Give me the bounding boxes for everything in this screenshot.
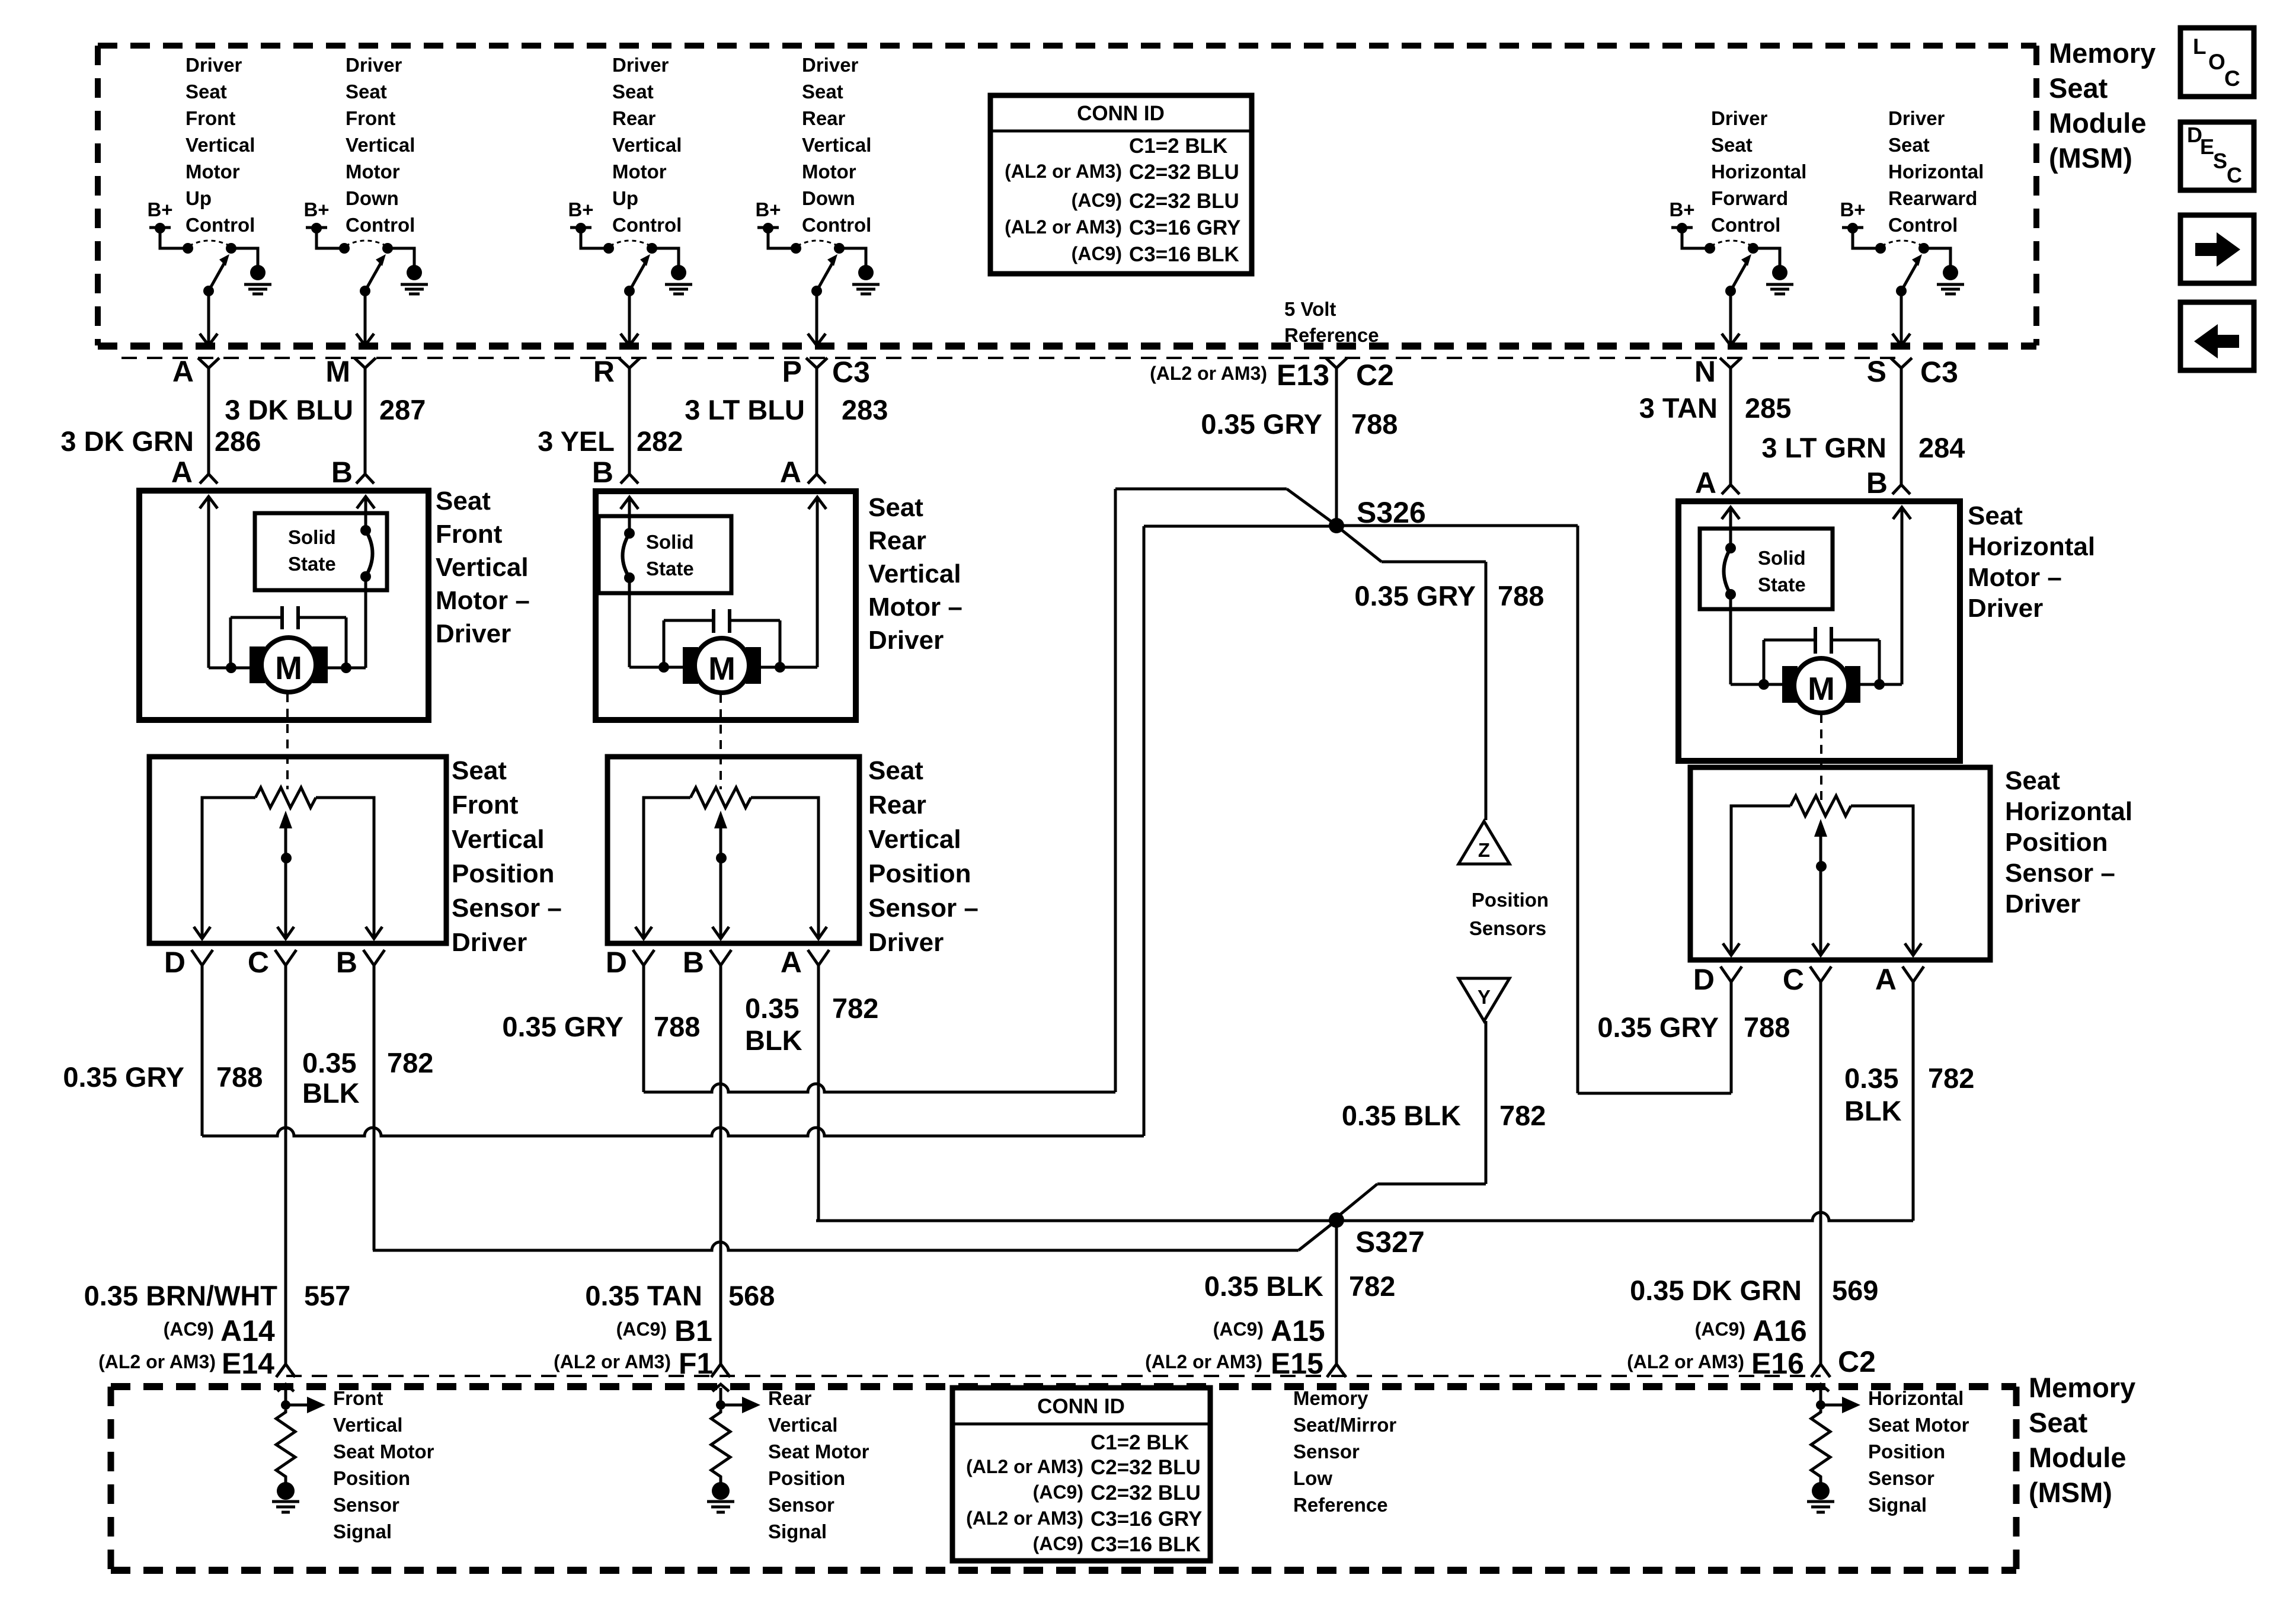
svg-text:(MSM): (MSM): [2029, 1477, 2112, 1508]
svg-text:B+: B+: [568, 199, 593, 220]
svg-text:Front: Front: [333, 1387, 383, 1409]
svg-text:285: 285: [1745, 392, 1791, 424]
svg-text:Position: Position: [1868, 1441, 1945, 1462]
svg-text:Sensor –: Sensor –: [2005, 859, 2115, 888]
svg-text:287: 287: [379, 394, 426, 425]
svg-text:C: C: [1783, 963, 1804, 996]
svg-text:0.35 GRY: 0.35 GRY: [1201, 408, 1322, 440]
svg-text:B: B: [331, 456, 353, 489]
svg-text:Front: Front: [452, 790, 519, 820]
svg-text:Position: Position: [2005, 828, 2108, 857]
svg-text:Sensor: Sensor: [1293, 1441, 1360, 1462]
svg-text:C: C: [2224, 66, 2240, 91]
svg-text:C3=16 BLK: C3=16 BLK: [1091, 1533, 1201, 1556]
svg-text:O: O: [2208, 50, 2225, 74]
svg-text:Seat: Seat: [2049, 72, 2108, 104]
svg-text:(AC9): (AC9): [616, 1318, 667, 1340]
svg-text:5 Volt: 5 Volt: [1284, 298, 1336, 320]
svg-text:788: 788: [1744, 1012, 1790, 1043]
svg-text:A15: A15: [1271, 1314, 1325, 1347]
svg-text:0.35 DK GRN: 0.35 DK GRN: [1630, 1275, 1802, 1306]
svg-text:A: A: [172, 355, 194, 388]
svg-text:P: P: [782, 355, 802, 388]
svg-text:State: State: [1758, 574, 1806, 596]
svg-text:Seat: Seat: [802, 81, 843, 103]
svg-text:Low: Low: [1293, 1467, 1332, 1489]
svg-text:Motor: Motor: [346, 161, 400, 183]
svg-text:Signal: Signal: [333, 1521, 392, 1542]
svg-text:S: S: [1867, 355, 1886, 388]
svg-text:B+: B+: [1669, 199, 1694, 220]
svg-text:0.35 BLK: 0.35 BLK: [1204, 1270, 1323, 1302]
svg-text:(AC9): (AC9): [1072, 243, 1122, 264]
svg-text:B+: B+: [303, 199, 329, 220]
svg-text:Control: Control: [1888, 214, 1958, 236]
svg-text:3 LT BLU: 3 LT BLU: [685, 394, 805, 425]
svg-text:E14: E14: [222, 1347, 274, 1380]
svg-text:State: State: [288, 553, 336, 575]
svg-text:B+: B+: [755, 199, 781, 220]
svg-text:0.35 BLK: 0.35 BLK: [1342, 1100, 1461, 1131]
svg-text:3 DK GRN: 3 DK GRN: [60, 425, 194, 457]
svg-text:C1=2 BLK: C1=2 BLK: [1129, 135, 1227, 158]
svg-text:788: 788: [1351, 408, 1398, 440]
svg-text:A16: A16: [1753, 1314, 1807, 1347]
svg-text:Driver: Driver: [186, 54, 242, 76]
svg-text:M: M: [1808, 670, 1835, 707]
svg-text:B: B: [592, 456, 613, 489]
svg-text:Memory: Memory: [1293, 1387, 1368, 1409]
svg-text:Position: Position: [452, 859, 555, 888]
svg-text:A: A: [781, 946, 802, 979]
svg-text:Seat: Seat: [186, 81, 227, 103]
svg-text:C2=32 BLU: C2=32 BLU: [1129, 190, 1239, 213]
svg-text:Seat: Seat: [2005, 766, 2060, 795]
svg-text:Motor –: Motor –: [436, 586, 530, 615]
svg-text:Rear: Rear: [612, 107, 656, 129]
svg-text:A14: A14: [220, 1314, 275, 1347]
svg-text:(AC9): (AC9): [164, 1318, 214, 1340]
svg-text:F1: F1: [679, 1347, 713, 1380]
svg-text:Seat Motor: Seat Motor: [333, 1441, 434, 1462]
svg-text:Module: Module: [2049, 107, 2146, 139]
svg-text:Seat: Seat: [2029, 1407, 2088, 1438]
svg-text:Driver: Driver: [612, 54, 669, 76]
svg-text:Rear: Rear: [868, 526, 926, 555]
svg-text:Vertical: Vertical: [612, 134, 682, 156]
svg-text:Control: Control: [186, 214, 255, 236]
svg-text:782: 782: [1499, 1100, 1546, 1131]
svg-text:Down: Down: [346, 187, 399, 209]
svg-text:Sensor: Sensor: [333, 1494, 399, 1516]
svg-text:C1=2 BLK: C1=2 BLK: [1091, 1431, 1189, 1454]
svg-text:Seat: Seat: [612, 81, 654, 103]
svg-text:Rear: Rear: [802, 107, 846, 129]
svg-text:E13: E13: [1277, 359, 1329, 392]
svg-text:Horizontal: Horizontal: [1888, 161, 1984, 183]
svg-text:Driver: Driver: [1711, 107, 1768, 129]
svg-text:Position: Position: [768, 1467, 845, 1489]
svg-text:Control: Control: [802, 214, 871, 236]
svg-text:State: State: [646, 558, 694, 580]
svg-text:Driver: Driver: [1968, 594, 2043, 623]
svg-text:Memory: Memory: [2029, 1372, 2135, 1403]
svg-text:Vertical: Vertical: [333, 1414, 402, 1436]
svg-text:Memory: Memory: [2049, 37, 2156, 69]
svg-text:Seat Motor: Seat Motor: [768, 1441, 869, 1462]
svg-text:(AC9): (AC9): [1213, 1318, 1264, 1340]
svg-text:(AC9): (AC9): [1072, 190, 1122, 211]
svg-text:N: N: [1694, 355, 1716, 388]
svg-text:A: A: [171, 456, 193, 489]
svg-text:557: 557: [304, 1280, 350, 1311]
svg-text:3 DK BLU: 3 DK BLU: [225, 394, 353, 425]
svg-text:Motor: Motor: [186, 161, 240, 183]
svg-text:Control: Control: [612, 214, 682, 236]
svg-text:0.35 GRY: 0.35 GRY: [1597, 1012, 1719, 1043]
svg-text:788: 788: [1498, 580, 1544, 612]
svg-text:Driver: Driver: [452, 928, 527, 957]
svg-text:782: 782: [387, 1047, 433, 1078]
svg-text:0.35: 0.35: [302, 1047, 356, 1078]
svg-text:Seat: Seat: [868, 493, 923, 522]
svg-text:Driver: Driver: [868, 928, 944, 957]
svg-text:(MSM): (MSM): [2049, 142, 2132, 174]
svg-text:782: 782: [1349, 1270, 1395, 1302]
svg-text:Seat: Seat: [1968, 501, 2023, 530]
svg-text:CONN ID: CONN ID: [1037, 1395, 1125, 1418]
svg-text:(AL2 or AM3): (AL2 or AM3): [966, 1507, 1083, 1529]
svg-text:Sensor –: Sensor –: [868, 894, 978, 923]
svg-text:Seat/Mirror: Seat/Mirror: [1293, 1414, 1396, 1436]
svg-text:B: B: [336, 946, 357, 979]
svg-text:Vertical: Vertical: [452, 825, 545, 854]
svg-text:Horizontal: Horizontal: [1868, 1387, 1964, 1409]
svg-text:3 TAN: 3 TAN: [1639, 392, 1718, 424]
svg-text:B1: B1: [674, 1314, 712, 1347]
svg-text:Vertical: Vertical: [436, 553, 529, 582]
svg-text:D: D: [606, 946, 627, 979]
svg-text:C3: C3: [1920, 356, 1958, 389]
svg-text:Motor –: Motor –: [868, 593, 962, 622]
svg-text:Motor: Motor: [612, 161, 667, 183]
svg-text:Vertical: Vertical: [868, 825, 961, 854]
svg-text:C2=32 BLU: C2=32 BLU: [1091, 1481, 1201, 1505]
svg-text:B: B: [683, 946, 704, 979]
svg-text:Front: Front: [436, 520, 503, 549]
svg-text:E: E: [2200, 135, 2214, 159]
svg-text:Solid: Solid: [288, 526, 336, 548]
svg-text:B+: B+: [147, 199, 172, 220]
svg-text:782: 782: [832, 993, 878, 1024]
svg-text:788: 788: [654, 1011, 700, 1042]
svg-text:A: A: [1875, 963, 1897, 996]
svg-text:Front: Front: [186, 107, 235, 129]
svg-text:Vertical: Vertical: [802, 134, 871, 156]
svg-text:(AL2 or AM3): (AL2 or AM3): [1150, 363, 1267, 384]
svg-text:Seat: Seat: [346, 81, 387, 103]
svg-text:C: C: [2227, 163, 2242, 187]
svg-text:Module: Module: [2029, 1442, 2126, 1473]
svg-text:284: 284: [1918, 432, 1965, 463]
svg-text:Driver: Driver: [802, 54, 859, 76]
svg-text:788: 788: [216, 1061, 263, 1093]
svg-text:BLK: BLK: [302, 1077, 360, 1109]
svg-text:Forward: Forward: [1711, 187, 1788, 209]
svg-text:(AC9): (AC9): [1033, 1481, 1083, 1503]
svg-text:Horizontal: Horizontal: [2005, 797, 2132, 826]
svg-text:Y: Y: [1478, 986, 1491, 1008]
svg-text:Motor –: Motor –: [1968, 563, 2062, 592]
svg-text:M: M: [275, 649, 302, 686]
svg-text:Signal: Signal: [1868, 1494, 1927, 1516]
svg-text:Position: Position: [1472, 889, 1549, 911]
svg-text:Sensor –: Sensor –: [452, 894, 562, 923]
svg-text:Seat: Seat: [452, 756, 507, 785]
svg-text:3 YEL: 3 YEL: [538, 425, 615, 457]
svg-text:(AL2 or AM3): (AL2 or AM3): [1627, 1351, 1744, 1372]
svg-text:A: A: [780, 456, 801, 489]
svg-text:B+: B+: [1840, 199, 1865, 220]
svg-text:Z: Z: [1478, 839, 1490, 861]
svg-text:0.35: 0.35: [1844, 1062, 1898, 1094]
svg-text:568: 568: [728, 1280, 775, 1311]
svg-text:C3=16 GRY: C3=16 GRY: [1129, 216, 1240, 239]
svg-text:C2=32 BLU: C2=32 BLU: [1129, 161, 1239, 184]
svg-text:Motor: Motor: [802, 161, 856, 183]
svg-text:(AL2 or AM3): (AL2 or AM3): [1005, 161, 1122, 182]
svg-text:C2: C2: [1838, 1345, 1876, 1378]
svg-text:0.35 GRY: 0.35 GRY: [502, 1011, 623, 1042]
svg-text:Signal: Signal: [768, 1521, 827, 1542]
svg-text:0.35 BRN/WHT: 0.35 BRN/WHT: [84, 1280, 278, 1311]
svg-text:C3: C3: [832, 356, 870, 389]
svg-text:CONN ID: CONN ID: [1077, 102, 1165, 125]
svg-text:Driver: Driver: [2005, 889, 2080, 918]
svg-text:Horizontal: Horizontal: [1968, 532, 2095, 561]
svg-text:Up: Up: [186, 187, 212, 209]
svg-text:S: S: [2213, 149, 2227, 173]
svg-text:Front: Front: [346, 107, 395, 129]
svg-text:Sensors: Sensors: [1469, 917, 1546, 939]
svg-text:(AL2 or AM3): (AL2 or AM3): [966, 1456, 1083, 1477]
svg-text:Position: Position: [333, 1467, 410, 1489]
svg-text:Vertical: Vertical: [186, 134, 255, 156]
svg-text:BLK: BLK: [745, 1025, 802, 1056]
svg-text:Solid: Solid: [1758, 547, 1806, 569]
svg-text:Up: Up: [612, 187, 638, 209]
svg-text:E15: E15: [1271, 1347, 1323, 1380]
svg-text:0.35 TAN: 0.35 TAN: [585, 1280, 702, 1311]
svg-text:Rear: Rear: [768, 1387, 812, 1409]
svg-text:Vertical: Vertical: [346, 134, 415, 156]
svg-text:282: 282: [637, 425, 683, 457]
svg-text:L: L: [2193, 34, 2207, 59]
svg-text:Down: Down: [802, 187, 855, 209]
svg-text:(AL2 or AM3): (AL2 or AM3): [554, 1351, 671, 1372]
svg-text:Vertical: Vertical: [868, 559, 961, 588]
svg-text:D: D: [1693, 963, 1715, 996]
svg-text:M: M: [325, 355, 350, 388]
svg-text:C: C: [248, 946, 269, 979]
svg-text:Control: Control: [1711, 214, 1780, 236]
svg-text:Sensor: Sensor: [1868, 1467, 1934, 1489]
svg-text:D: D: [164, 946, 186, 979]
svg-text:Seat: Seat: [1711, 134, 1753, 156]
svg-text:R: R: [593, 355, 615, 388]
svg-text:286: 286: [215, 425, 261, 457]
svg-text:Sensor: Sensor: [768, 1494, 834, 1516]
svg-text:(AL2 or AM3): (AL2 or AM3): [1145, 1351, 1262, 1372]
svg-text:Rearward: Rearward: [1888, 187, 1977, 209]
svg-text:B: B: [1866, 466, 1888, 500]
svg-text:Solid: Solid: [646, 531, 694, 553]
svg-text:BLK: BLK: [1844, 1095, 1902, 1126]
svg-text:782: 782: [1928, 1062, 1974, 1094]
svg-text:0.35 GRY: 0.35 GRY: [1354, 580, 1476, 612]
svg-text:Vertical: Vertical: [768, 1414, 837, 1436]
svg-text:Seat: Seat: [436, 486, 491, 516]
svg-text:C3=16 BLK: C3=16 BLK: [1129, 243, 1239, 266]
svg-text:(AL2 or AM3): (AL2 or AM3): [1005, 216, 1122, 238]
svg-text:Seat Motor: Seat Motor: [1868, 1414, 1969, 1436]
svg-text:Driver: Driver: [346, 54, 402, 76]
svg-text:Rear: Rear: [868, 790, 926, 820]
svg-text:Position: Position: [868, 859, 971, 888]
svg-text:Seat: Seat: [1888, 134, 1930, 156]
svg-text:C3=16 GRY: C3=16 GRY: [1091, 1507, 1202, 1531]
svg-text:M: M: [708, 650, 736, 687]
svg-text:283: 283: [842, 394, 888, 425]
svg-text:C2: C2: [1356, 359, 1394, 392]
svg-text:Seat: Seat: [868, 756, 923, 785]
svg-text:Driver: Driver: [436, 619, 511, 648]
svg-text:(AC9): (AC9): [1033, 1533, 1083, 1554]
svg-text:Horizontal: Horizontal: [1711, 161, 1806, 183]
svg-text:(AL2 or AM3): (AL2 or AM3): [98, 1351, 216, 1372]
svg-text:Driver: Driver: [868, 626, 944, 655]
svg-text:(AC9): (AC9): [1695, 1318, 1745, 1340]
svg-text:0.35 GRY: 0.35 GRY: [63, 1061, 184, 1093]
svg-text:Reference: Reference: [1293, 1494, 1388, 1516]
svg-text:Reference: Reference: [1284, 324, 1379, 346]
svg-text:A: A: [1695, 466, 1716, 500]
svg-text:0.35: 0.35: [745, 993, 799, 1024]
svg-text:C2=32 BLU: C2=32 BLU: [1091, 1456, 1201, 1479]
svg-text:569: 569: [1832, 1275, 1878, 1306]
svg-text:3 LT GRN: 3 LT GRN: [1761, 432, 1886, 463]
svg-text:S327: S327: [1355, 1225, 1425, 1259]
svg-text:E16: E16: [1751, 1347, 1804, 1380]
svg-text:Control: Control: [346, 214, 415, 236]
svg-text:Driver: Driver: [1888, 107, 1945, 129]
